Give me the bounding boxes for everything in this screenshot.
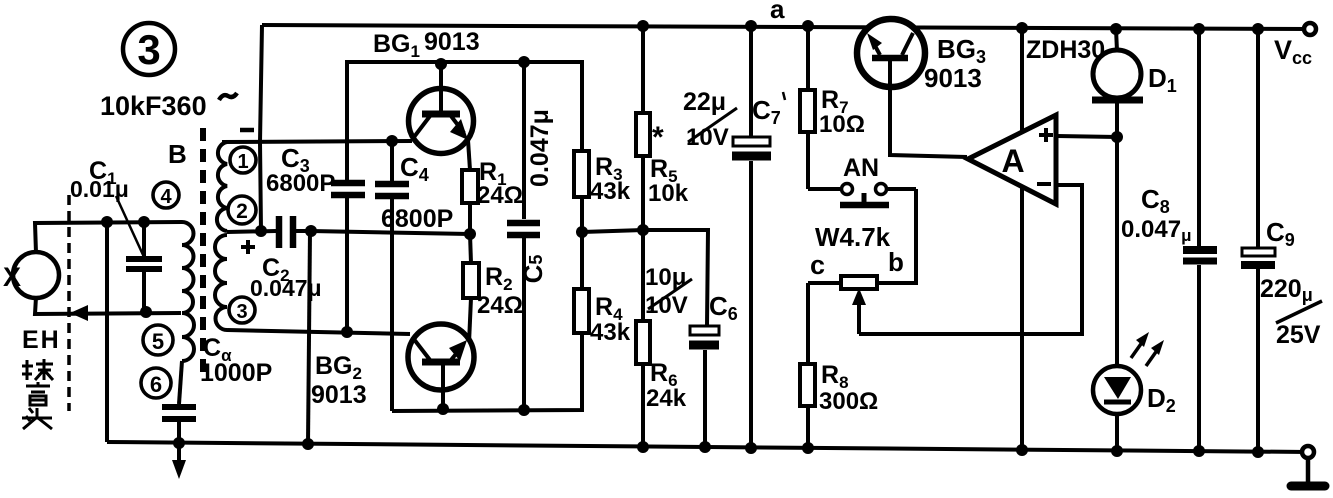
node junction C5 bottom xyxy=(518,404,530,416)
node junction R7 top rail xyxy=(802,20,814,32)
svg-text:1: 1 xyxy=(237,151,248,173)
svg-text:10kF360: 10kF360 xyxy=(100,91,207,121)
terminal circle 3 xyxy=(229,297,255,323)
svg-text:10Ω: 10Ω xyxy=(819,111,865,138)
label C8 0.047u xyxy=(1121,184,1191,245)
wire multivibrator inner top line xyxy=(347,62,582,180)
node junction C1 top xyxy=(138,216,150,228)
resistor R4 xyxy=(574,232,589,333)
terminal circle 5 xyxy=(143,325,173,355)
light emission arrows D2 xyxy=(1131,332,1164,366)
potentiometer W4.7k xyxy=(808,276,877,334)
capacitor C7 electrolytic xyxy=(732,26,771,448)
resistor R3 xyxy=(574,151,589,232)
wire Vcc branch through op-amp region xyxy=(1020,28,1024,450)
label BG1 9013 xyxy=(373,28,480,61)
svg-text:X: X xyxy=(3,262,21,292)
svg-text:b: b xyxy=(888,247,904,277)
wire head bottom line with arrow xyxy=(35,297,181,314)
capacitor Ca xyxy=(162,407,196,443)
node junction C9 top rail xyxy=(1252,23,1264,35)
ground terminal bottom right xyxy=(1291,446,1325,486)
svg-text:22μ: 22μ xyxy=(683,88,726,116)
svg-text:3: 3 xyxy=(236,301,247,323)
transistor BG1 xyxy=(409,63,474,170)
node junction R3 R4 xyxy=(576,226,588,238)
node junction D1 top rail xyxy=(1110,23,1122,35)
svg-text:A: A xyxy=(1001,143,1024,179)
node junction Ca at ground rail xyxy=(173,437,185,449)
label C4 6800P xyxy=(381,152,453,233)
wire left drop from top rail to winding and C2 xyxy=(260,25,262,231)
svg-text:0.047μ: 0.047μ xyxy=(526,109,554,187)
node junction C7 top rail xyxy=(745,20,757,32)
svg-text:AN: AN xyxy=(843,154,879,182)
node junction C8 ground rail xyxy=(1193,445,1205,457)
diode D1 xyxy=(1092,29,1143,137)
wire BG2 collector line from winding 3 xyxy=(227,330,410,334)
label R3 43k xyxy=(590,153,631,205)
polarity plus at center tap xyxy=(241,240,255,254)
resistor R6 xyxy=(636,230,650,447)
node junction R1 R2 emitter bus xyxy=(464,228,476,240)
wire head top to transformer top xyxy=(35,222,182,253)
svg-text:*: * xyxy=(652,121,664,154)
svg-text:5: 5 xyxy=(152,329,164,354)
polarity minus at winding top xyxy=(240,128,254,133)
svg-text:24k: 24k xyxy=(646,385,687,412)
svg-text:6: 6 xyxy=(150,372,162,397)
node junction C6 ground rail xyxy=(699,441,711,453)
label R6 24k xyxy=(646,359,687,412)
svg-text:0.047μ: 0.047μ xyxy=(1121,216,1191,245)
LED D2 xyxy=(1093,366,1141,451)
node junction C5 top xyxy=(518,56,530,68)
op-amp A xyxy=(968,115,1056,204)
svg-text:10V: 10V xyxy=(645,292,688,319)
wire C2 junction down to ground rail xyxy=(308,231,310,444)
svg-text:25V: 25V xyxy=(1276,321,1321,349)
ground arrow below rail xyxy=(172,443,186,479)
svg-text:300Ω: 300Ω xyxy=(819,388,878,415)
svg-text:ZDH30: ZDH30 xyxy=(1026,36,1105,64)
capacitor C9 electrolytic xyxy=(1241,29,1275,452)
svg-text:24Ω: 24Ω xyxy=(477,182,523,209)
transformer B core dashed xyxy=(200,128,206,372)
svg-text:43k: 43k xyxy=(590,319,631,346)
resistor R7 xyxy=(800,26,815,189)
wire op-amp plus input to D1 cathode xyxy=(1057,136,1117,137)
node junction R5 R6 xyxy=(637,224,649,236)
wire secondary top to rail drop xyxy=(222,140,227,144)
svg-text:2: 2 xyxy=(236,200,248,223)
svg-text:B: B xyxy=(168,139,187,169)
label Ca 1000P xyxy=(200,334,272,387)
label R1 24ohm xyxy=(477,158,523,209)
resistor R2 xyxy=(463,234,479,343)
node junction C3 at BG2 collector line xyxy=(341,326,353,338)
svg-text:W4.7k: W4.7k xyxy=(815,222,891,252)
label 10u 10V C6 xyxy=(645,264,738,324)
svg-text:10k: 10k xyxy=(648,180,689,207)
wire primary bottom to Ca xyxy=(179,361,182,404)
terminal Vcc xyxy=(1274,23,1316,68)
node junction R6 ground rail xyxy=(637,441,649,453)
wire bottom ground rail xyxy=(107,442,1308,452)
label 22u 10V C7 xyxy=(683,88,785,151)
node junction ground rail x1022 xyxy=(1016,444,1028,456)
node junction C2 right xyxy=(305,225,317,237)
transformer secondary winding right upper xyxy=(217,142,227,231)
label R8 300ohm xyxy=(819,361,878,415)
node junction R5 top rail xyxy=(637,20,649,32)
wire R3R4 junction to R5R6 junction xyxy=(582,230,643,232)
node junction C9 ground rail xyxy=(1252,446,1264,458)
wire wiper feedback to op-amp minus xyxy=(859,185,1082,334)
wire D1 to D2 xyxy=(1115,137,1119,367)
wire switch to potentiometer b end xyxy=(877,189,916,283)
terminal circle 1 xyxy=(230,147,256,173)
dashed boundary line xyxy=(67,195,71,411)
node junction C8 top rail xyxy=(1193,23,1205,35)
svg-text:10V: 10V xyxy=(686,124,729,151)
node junction C1 bottom xyxy=(140,306,152,318)
label erase head chinese characters xyxy=(22,359,53,429)
label R2 24ohm xyxy=(477,263,523,319)
node junction R8 ground rail xyxy=(802,442,814,454)
svg-text:9013: 9013 xyxy=(424,28,480,56)
wire left vertical ground branch xyxy=(105,222,109,442)
node junction D2 ground rail xyxy=(1111,445,1123,457)
svg-text:0.01μ: 0.01μ xyxy=(70,176,129,202)
terminal circle 4 xyxy=(153,182,179,208)
wire BG3 base to op-amp output apex xyxy=(890,87,967,157)
node junction at ground rail x308 xyxy=(302,438,314,450)
svg-text:3: 3 xyxy=(137,26,160,73)
svg-text:6800P: 6800P xyxy=(381,205,453,233)
capacitor C3 xyxy=(331,183,365,332)
erase head X xyxy=(3,252,59,298)
label C9 220u 25V xyxy=(1260,217,1322,349)
node junction BG1 base at inner top line xyxy=(435,58,447,70)
circled figure number 3 xyxy=(123,23,175,75)
arrow on head bottom line xyxy=(70,305,88,321)
svg-text:EH: EH xyxy=(22,326,61,354)
svg-text:43k: 43k xyxy=(590,178,631,205)
svg-text:4: 4 xyxy=(160,186,172,208)
wire R5R6 junction to C6 xyxy=(643,230,708,326)
capacitor C6 electrolytic xyxy=(689,326,719,447)
wire multivibrator inner bottom line xyxy=(392,333,582,411)
resistor R5 xyxy=(636,26,650,230)
terminal circle 2 xyxy=(228,196,256,224)
node junction C2 left xyxy=(255,225,267,237)
resistor R1 xyxy=(462,170,478,234)
capacitor C2 xyxy=(227,216,311,248)
node junction C7 ground rail xyxy=(745,442,757,454)
node junction top rail x1022 xyxy=(1016,22,1028,34)
wire emitter bus C2 to R1/R2 junction xyxy=(311,231,470,234)
svg-text:1000P: 1000P xyxy=(200,359,272,387)
label R7 10ohm xyxy=(819,86,865,138)
svg-text:9013: 9013 xyxy=(924,63,982,93)
transformer primary winding left xyxy=(182,222,194,361)
label R4 43k xyxy=(590,293,631,346)
transistor BG2 xyxy=(408,324,474,409)
wire BG1 base line xyxy=(222,141,412,142)
resistor R8 xyxy=(800,283,815,448)
label C3 6800P xyxy=(266,143,335,197)
label C1 0.01u with leader xyxy=(70,157,144,257)
label C2 0.047u xyxy=(250,254,322,301)
transistor BG3 xyxy=(857,19,925,87)
label BG2 9013 xyxy=(311,352,367,409)
transformer secondary winding right lower xyxy=(215,235,227,330)
wire top rail node a to Vcc xyxy=(262,25,1310,29)
svg-text:24Ω: 24Ω xyxy=(477,292,523,319)
label star R5 10k xyxy=(648,121,689,207)
label BG3 9013 xyxy=(924,34,986,93)
capacitor C5 xyxy=(507,62,540,410)
node junction BG2 base at inner bottom line xyxy=(437,403,449,415)
svg-text:6800P: 6800P xyxy=(266,170,335,197)
svg-text:9013: 9013 xyxy=(311,381,367,409)
tilde mark xyxy=(219,93,237,100)
pushbutton switch AN xyxy=(808,184,916,206)
svg-text:a: a xyxy=(770,0,785,24)
node junction C4 top xyxy=(386,135,398,147)
terminal circle 6 xyxy=(141,368,171,398)
capacitor C1 xyxy=(126,222,162,312)
svg-text:c: c xyxy=(810,250,825,280)
node junction plus input at D1 xyxy=(1111,131,1123,143)
node junction top line at ground branch xyxy=(101,216,113,228)
capacitor C8 xyxy=(1183,29,1217,451)
capacitor C4 xyxy=(375,141,409,411)
